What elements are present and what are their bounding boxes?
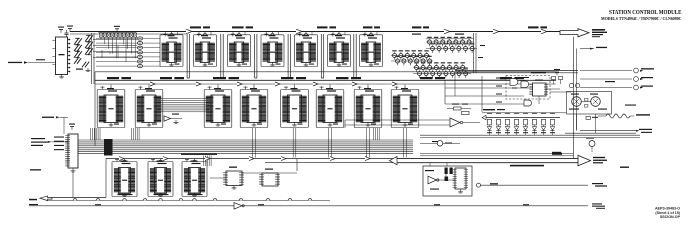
wires: box to bus bbox=[429, 163, 431, 166]
wire: P1 output port decoder bus bbox=[95, 79, 556, 81]
wires: top ICs to bus verticals bbox=[172, 32, 372, 79]
connector J1 (line inputs) bbox=[52, 37, 70, 75]
gate U8A bbox=[510, 79, 518, 86]
IC U506 (output port buffer) bbox=[328, 33, 351, 66]
ground in box bbox=[460, 190, 462, 192]
gate U8B bbox=[521, 81, 529, 87]
IC U702 (shift register) bbox=[148, 159, 173, 197]
power +5V above J1 bbox=[60, 30, 62, 33]
IC U801 (decoder) bbox=[529, 80, 548, 105]
wire: audio pair to line out bbox=[580, 130, 636, 132]
wires in trap area bbox=[445, 74, 571, 113]
resistor R820 below output box bbox=[586, 117, 591, 120]
transistor Q804 bbox=[590, 94, 600, 107]
junction arrows on row-2 frame bbox=[150, 82, 155, 86]
IC U501 (output port buffer) bbox=[160, 33, 183, 66]
label: +5V W bbox=[30, 169, 41, 170]
wire: bus to trap dial area bbox=[455, 69, 578, 71]
ribbon bus between U602 and U603 bbox=[158, 99, 210, 112]
IC U602 (port register) bbox=[135, 86, 163, 127]
label: SHIFT REGISTER ADDRESS bbox=[181, 153, 217, 155]
wire: long serial rail to audio board bbox=[29, 205, 588, 207]
bus arrowhead to RF board (right end of top bus) bbox=[560, 29, 589, 37]
line coupler T2 (lower) bbox=[74, 58, 90, 71]
wire stubs from top bus to IC labels bbox=[166, 32, 378, 35]
vertical bundle to U601 bbox=[91, 128, 101, 140]
resistors R11 R12 in box bbox=[445, 168, 453, 182]
labels on row-2 bus bbox=[107, 77, 119, 79]
IC U606 (port register) bbox=[316, 86, 344, 127]
wires: coupler outputs grid bbox=[93, 40, 137, 58]
labels at keyed line end bbox=[592, 183, 603, 184]
IC U705 (buffer) bbox=[259, 169, 280, 187]
bus arrowhead (right end) bbox=[578, 155, 591, 165]
buffer U6A between rows bbox=[164, 116, 171, 121]
vertical bundle to shift registers bbox=[204, 156, 212, 167]
wire: lower frame line bbox=[265, 162, 397, 164]
wire: left frame verticals bbox=[91, 33, 93, 84]
wire: top address/data bus bbox=[70, 32, 578, 35]
line transformer T1 couplers bbox=[74, 35, 93, 57]
IC U601 (port register) bbox=[97, 86, 125, 127]
wire: shift register select bus bbox=[106, 158, 397, 160]
misc labels near transistor arrays bbox=[412, 34, 421, 35]
labels left of P3 bbox=[54, 137, 64, 138]
labels right of bus arrowhead bbox=[593, 157, 605, 158]
IC U507 (output port buffer) bbox=[360, 33, 383, 66]
resistors R801 R802 bbox=[552, 69, 563, 84]
label: clock source bbox=[29, 204, 38, 205]
wire: staircase taps to diode column bbox=[102, 40, 126, 63]
audio output stage box bbox=[567, 92, 612, 115]
transistor Q805 bbox=[589, 141, 595, 147]
wires right mid connect bbox=[420, 153, 574, 155]
junction arrows on shift bus bbox=[119, 157, 124, 161]
feedback resistors R9 R10 bbox=[454, 107, 462, 110]
dashed box: TRAP DIAL SWITCH bbox=[506, 76, 550, 100]
bus tail arrow SD (left) bbox=[40, 196, 52, 201]
keying circuit box bbox=[423, 166, 472, 196]
label: 5.0 MHz out bbox=[580, 48, 594, 50]
IC U504 (output port buffer) bbox=[261, 33, 284, 66]
IC U701 (shift register) bbox=[112, 159, 137, 197]
vertical bundle mid ribbon bbox=[132, 128, 140, 140]
wire: P3 to lower left rail bbox=[72, 172, 74, 198]
resistors in output stage bbox=[585, 99, 588, 102]
op-amp U9A bbox=[345, 118, 480, 128]
gate U8C bbox=[524, 100, 532, 106]
power +5V above P3 bbox=[71, 127, 73, 130]
connector P3 (interboard) bbox=[65, 134, 78, 168]
label: trap dial switch bbox=[531, 72, 546, 74]
IC U503 (output port buffer) bbox=[228, 33, 251, 66]
wires: row3 ICs to shift bus bbox=[125, 159, 195, 162]
labels under shift register ICs bbox=[118, 194, 131, 196]
IC U704 (latch) bbox=[223, 167, 244, 190]
wires: row2 ICs down to lower bus bbox=[253, 128, 407, 158]
power +5V at bus start bbox=[69, 29, 71, 32]
wire: keyed output line bbox=[481, 184, 589, 186]
wire: input line to J1 bbox=[28, 62, 56, 64]
label above ladder bbox=[483, 109, 495, 110]
ground below J1 bbox=[61, 75, 63, 77]
label UP bbox=[620, 167, 629, 168]
ground below P3 bbox=[72, 169, 74, 171]
bus direction arrows on top bus bbox=[186, 29, 192, 34]
IC U608 (port register) bbox=[391, 86, 419, 127]
svg-text:SSCION-OP: SSCION-OP bbox=[660, 215, 681, 219]
wires inside keying box bbox=[437, 179, 456, 181]
label: TO AUDIO BOARD (under bus) bbox=[510, 165, 544, 167]
right vertical feed lines bbox=[573, 37, 575, 159]
IC U605 (port register) bbox=[281, 86, 309, 127]
transistor array Q501-Q514 (row driver) bbox=[426, 37, 477, 53]
wire: upper frame line row 2 bbox=[95, 71, 556, 73]
vertical bundle right of ribbon bbox=[374, 128, 380, 140]
label: SD bbox=[29, 199, 37, 201]
svg-text:MODELS TTN4894C / TRN7900C / C: MODELS TTN4894C / TRN7900C / CLN6080C bbox=[601, 16, 682, 21]
IC U607 (port register) bbox=[354, 86, 382, 127]
capacitor C1 above J1 bbox=[66, 30, 68, 33]
label: serial data in (left) bbox=[42, 117, 54, 118]
transistor Q803 bbox=[571, 94, 581, 107]
IC U11 (flip-flop) bbox=[453, 168, 468, 189]
wide interconnect bus to audio board bbox=[397, 159, 578, 163]
wire: U704 to bus loop bbox=[242, 172, 297, 174]
label: RF BOARD connector (right of arrow) bbox=[592, 29, 605, 31]
transistor array Q527-Q542 bbox=[413, 62, 471, 78]
resistor-diode ladder R810-R817 CR810-CR817 bbox=[482, 113, 560, 136]
output gate circle bbox=[477, 183, 481, 187]
signal row: squelch bbox=[580, 87, 632, 89]
inductor L801 to audio line bbox=[606, 114, 630, 118]
resistor network RN1 (pull-ups) bbox=[98, 26, 137, 59]
wire: vertical from top bus to trap area bbox=[473, 33, 475, 73]
shield block on ribbon bbox=[104, 139, 113, 156]
jumper/diode column CR1-CR7 bbox=[96, 37, 160, 68]
transistor array Q515-Q526 bbox=[391, 50, 433, 65]
IC U502 (output port buffer) bbox=[194, 33, 217, 66]
wires: row2 IC tops to decoder bus bbox=[111, 85, 405, 90]
buffer U7A on serial rail bbox=[234, 203, 242, 210]
bus tail arrow (left end) bbox=[390, 156, 398, 164]
buffer U10A in box bbox=[425, 170, 439, 184]
label: line input (far left) bbox=[8, 62, 22, 63]
wire: meander rail under shift registers bbox=[48, 199, 331, 201]
signal row: tune enable bbox=[580, 70, 632, 72]
dark tick on bus bbox=[552, 153, 562, 155]
labels: data/clock lines (left) bbox=[31, 138, 45, 139]
labels in box bbox=[430, 189, 439, 190]
IC U603 (port register) bbox=[204, 86, 232, 127]
IC U505 (output port buffer) bbox=[295, 33, 318, 66]
ribbon cable bus to connector P3 bbox=[79, 140, 414, 154]
transistor Q9 on line bbox=[437, 141, 443, 147]
IC U703 (shift register) bbox=[182, 159, 207, 197]
transistors Q801 Q802 bbox=[569, 83, 573, 87]
wire: outer frame line row 2 bbox=[95, 83, 556, 85]
IC U604 (port register) bbox=[240, 86, 268, 127]
signal row: PL detect bbox=[580, 78, 632, 80]
labels on top bus bbox=[190, 26, 201, 28]
wires: output box to audio pair bbox=[576, 114, 578, 131]
label: rail destination (right end) bbox=[592, 203, 602, 204]
wires: mid horizontal pair bbox=[420, 134, 640, 136]
